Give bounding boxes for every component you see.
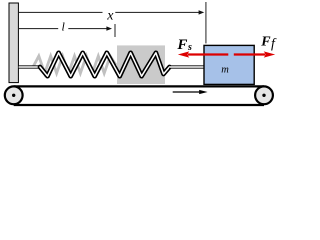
- force arrow Ff (belt friction force, pointing right): [234, 51, 275, 57]
- rod from wall to spring: [19, 65, 41, 68]
- left pulley axle dot: [12, 94, 15, 97]
- svg-text:s: s: [187, 42, 192, 53]
- dimension line l: [19, 28, 108, 30]
- right pulley axle dot: [262, 94, 265, 97]
- svg-text:F: F: [176, 37, 187, 53]
- svg-text:m: m: [221, 64, 229, 75]
- svg-text:F: F: [260, 35, 271, 50]
- ghost block (natural length position): [117, 45, 165, 84]
- right pulley: [255, 86, 273, 104]
- left pulley: [5, 86, 23, 104]
- mass block m: [204, 45, 254, 84]
- svg-text:x: x: [106, 8, 114, 23]
- wall: [9, 3, 18, 83]
- belt motion arrow: [173, 90, 208, 94]
- arrowhead of x line: [199, 10, 205, 14]
- rod from spring to mass: [169, 65, 204, 68]
- tick mark at l: [114, 24, 116, 37]
- belt top line: [14, 85, 264, 87]
- force arrow Fs (spring force, pointing left): [178, 51, 229, 57]
- dimension line x: [19, 11, 200, 13]
- spring (stretched, black coil): [40, 53, 170, 76]
- ghost spring (natural length): [33, 56, 116, 73]
- arrowhead of l line: [106, 26, 112, 30]
- tick mark at x: [205, 2, 207, 43]
- belt bottom line: [14, 104, 264, 106]
